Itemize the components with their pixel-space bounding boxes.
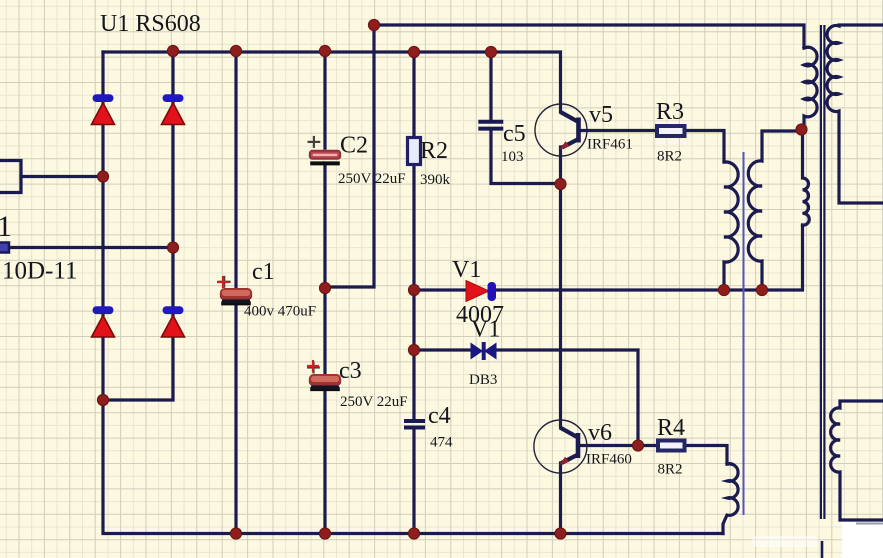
svg-text:R3: R3 xyxy=(656,99,684,125)
svg-text:250V 22uF: 250V 22uF xyxy=(340,394,408,410)
svg-text:103: 103 xyxy=(501,149,524,165)
svg-text:250V 22uF: 250V 22uF xyxy=(338,171,406,187)
svg-text:V1: V1 xyxy=(452,257,481,283)
svg-text:IRF460: IRF460 xyxy=(586,452,632,468)
svg-text:V1: V1 xyxy=(471,317,500,343)
svg-text:c4: c4 xyxy=(428,403,451,429)
svg-text:8R2: 8R2 xyxy=(657,149,682,165)
svg-text:v5: v5 xyxy=(589,102,613,128)
svg-text:IRF461: IRF461 xyxy=(587,137,633,153)
svg-text:8R2: 8R2 xyxy=(658,462,683,478)
svg-text:400v 470uF: 400v 470uF xyxy=(244,304,316,320)
svg-text:R4: R4 xyxy=(657,415,685,441)
svg-text:DB3: DB3 xyxy=(469,372,497,388)
svg-text:C2: C2 xyxy=(340,133,368,159)
svg-text:U1 RS608: U1 RS608 xyxy=(100,11,201,37)
svg-text:390k: 390k xyxy=(420,172,451,188)
svg-text:c1: c1 xyxy=(252,259,275,285)
svg-text:v6: v6 xyxy=(588,420,612,446)
svg-text:c3: c3 xyxy=(339,358,362,384)
svg-text:1: 1 xyxy=(0,210,12,243)
svg-text:474: 474 xyxy=(430,435,453,451)
svg-text:10D-11: 10D-11 xyxy=(2,258,77,285)
svg-text:R2: R2 xyxy=(420,138,448,164)
svg-text:c5: c5 xyxy=(503,121,526,147)
